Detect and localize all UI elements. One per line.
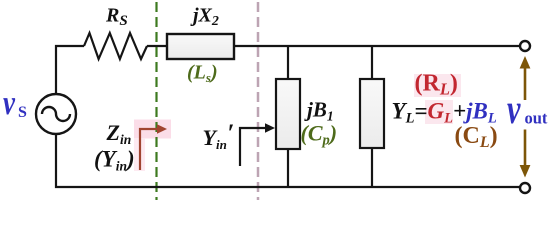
svg-text:(Cp): (Cp) bbox=[301, 121, 338, 149]
svg-text:out: out bbox=[525, 109, 548, 128]
svg-text:RS: RS bbox=[105, 5, 128, 30]
svg-text:v: v bbox=[507, 85, 521, 132]
svg-text:v: v bbox=[3, 83, 16, 122]
svg-text:jX2: jX2 bbox=[190, 5, 219, 30]
svg-text:(Ls): (Ls) bbox=[187, 62, 218, 86]
svg-text:(CL): (CL) bbox=[455, 123, 498, 151]
svg-text:(RL): (RL) bbox=[415, 71, 458, 99]
svg-text:(Yin): (Yin) bbox=[94, 147, 135, 174]
svg-text:Zin: Zin bbox=[106, 120, 132, 147]
svg-text:S: S bbox=[18, 104, 27, 121]
svg-text:Yin′: Yin′ bbox=[203, 120, 235, 152]
